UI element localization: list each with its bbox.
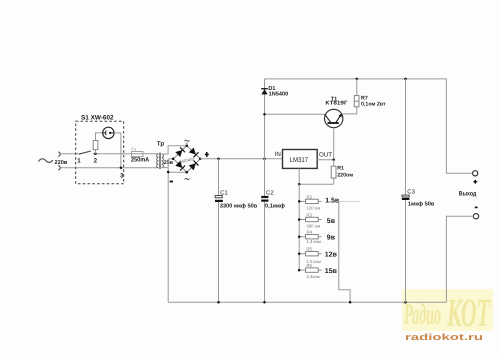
- wire AC top to switch: [61, 153, 79, 155]
- bridge diode bottom-left: [175, 161, 185, 171]
- transistor T1 KT819G: [325, 109, 343, 127]
- svg-text:C2: C2: [266, 189, 274, 196]
- wire plus output: [446, 79, 472, 173]
- resistor R7: [354, 79, 359, 107]
- resistor R2: [299, 199, 322, 203]
- label C1: [220, 190, 228, 197]
- node bridge right vertex: [199, 158, 202, 161]
- node R2: [298, 200, 301, 203]
- wire lamp to bottom: [114, 133, 121, 168]
- resistor R1: [331, 160, 336, 184]
- label 220ом: [337, 172, 353, 178]
- label Выход: [459, 191, 477, 198]
- node C3 top: [404, 78, 407, 81]
- bridge diode bottom-right: [189, 161, 199, 171]
- label Т1: [331, 97, 337, 103]
- node rail C3: [404, 301, 407, 304]
- label 1.4 ком: [307, 239, 321, 244]
- label C2: [266, 189, 274, 196]
- label 3300 мкф 50в: [220, 203, 258, 210]
- resistor R5: [299, 252, 322, 256]
- terminal bottom (plug pin): [58, 166, 60, 171]
- svg-text:Радио: Радио: [404, 298, 441, 331]
- node rail selector: [349, 301, 352, 304]
- node D1 tap: [263, 158, 266, 161]
- resistor R4: [299, 235, 322, 239]
- svg-text:1: 1: [77, 158, 81, 165]
- svg-text:5в: 5в: [327, 218, 336, 225]
- label Тр: [157, 141, 165, 148]
- node ADJ: [298, 183, 301, 186]
- svg-text:12в: 12в: [325, 252, 338, 259]
- wire AC bottom to transformer: [61, 167, 159, 169]
- pin 1 label: [77, 158, 81, 165]
- svg-text:2: 2: [94, 158, 98, 165]
- svg-text:R4: R4: [307, 230, 313, 235]
- label R4: [307, 230, 313, 235]
- wire secondary bottom to minus rail: [162, 167, 169, 169]
- node R6: [298, 269, 301, 272]
- label R5: [307, 247, 313, 252]
- resistor R3: [299, 217, 322, 221]
- svg-text:9в: 9в: [327, 235, 336, 242]
- label 680 ом: [307, 224, 321, 229]
- watermark РадиоКОТ: [402, 289, 493, 335]
- svg-text:R1: R1: [337, 166, 344, 172]
- svg-text:1.4 ком: 1.4 ком: [307, 239, 321, 244]
- svg-text:C1: C1: [220, 190, 228, 197]
- svg-text:220ом: 220ом: [337, 172, 353, 178]
- label 120 ом: [307, 206, 321, 211]
- svg-text:R6: R6: [307, 263, 313, 268]
- node bridge left vertex: [172, 158, 175, 161]
- label 15в: [325, 268, 338, 275]
- node R3: [298, 218, 301, 221]
- svg-text:R3: R3: [307, 213, 313, 218]
- svg-text:Тр: Тр: [157, 141, 165, 148]
- label КТ819Г: [325, 101, 348, 107]
- wire selector to rail: [339, 201, 350, 302]
- svg-text:C3: C3: [407, 189, 415, 196]
- svg-text:КОТ: КОТ: [446, 290, 490, 335]
- wire bridge plus to LM317 IN: [200, 158, 282, 160]
- label minus (bridge): [170, 181, 173, 183]
- lamp HL1 (neon indicator): [103, 127, 114, 138]
- wire secondary top to bridge top: [162, 146, 187, 154]
- wire T1 base down to OUT node: [333, 128, 335, 160]
- node C1 tap: [217, 158, 220, 161]
- wire ladder rail: [298, 184, 300, 270]
- wire minus output: [446, 216, 473, 302]
- label minus output: [475, 207, 478, 209]
- svg-text:25в: 25в: [164, 160, 174, 166]
- label 0,1ом 2вт: [361, 102, 386, 108]
- node bridge minus junction: [167, 171, 170, 174]
- label IN: [275, 151, 281, 158]
- node lamp-return junction: [120, 167, 123, 170]
- diode D1 1N5400: [261, 88, 268, 94]
- capacitor C3: [402, 79, 410, 302]
- label 2.4ком: [307, 274, 320, 279]
- transformer core: [160, 153, 161, 169]
- node bridge bottom vertex: [186, 171, 189, 174]
- node OUT: [332, 159, 335, 162]
- wire pin2 to fuse: [93, 153, 159, 155]
- node R4: [298, 235, 301, 238]
- svg-text:IN: IN: [275, 151, 281, 158]
- pin 3 label: [120, 173, 124, 180]
- label 1.5в: [325, 197, 340, 204]
- label LM317: [290, 157, 309, 164]
- svg-text:1мкф 50в: 1мкф 50в: [408, 201, 435, 208]
- node R5: [298, 252, 301, 255]
- label W04M: [180, 157, 195, 166]
- svg-text:2.4ком: 2.4ком: [307, 274, 320, 279]
- node bridge top vertex: [186, 144, 189, 147]
- label 0,1мкф: [265, 203, 285, 210]
- svg-text:S1 XW-602: S1 XW-602: [81, 114, 114, 121]
- diode D1 wire: [264, 79, 266, 159]
- svg-text:F1: F1: [132, 146, 137, 151]
- wire selector faint: [339, 200, 360, 202]
- transformer Tr primary winding: [157, 154, 159, 168]
- svg-text:220в: 220в: [55, 160, 68, 166]
- label 1N5400: [269, 92, 289, 98]
- resistor R6: [299, 268, 322, 272]
- bridge rectifier W04M outline: [173, 146, 200, 173]
- label F1: [132, 146, 137, 151]
- ac mark bottom tilde: [185, 178, 190, 179]
- wire base of T1: [265, 113, 325, 115]
- fuse F1: [131, 152, 143, 157]
- bridge diode top-right: [189, 147, 199, 157]
- svg-text:КТ819Г: КТ819Г: [325, 101, 348, 107]
- label plus (bridge): [205, 152, 209, 157]
- svg-text:3300 мкф 50в: 3300 мкф 50в: [220, 203, 258, 210]
- label 12в: [325, 252, 338, 259]
- label R7: [361, 96, 368, 102]
- wire OUT: [317, 159, 334, 161]
- regulator U1 LM317: [283, 150, 318, 169]
- label OUT: [319, 151, 332, 158]
- wire resistor top to lamp: [96, 133, 103, 141]
- svg-text:R2: R2: [307, 194, 313, 199]
- wire to bridge left vertex: [168, 158, 173, 160]
- capacitor C1 electrolytic: [215, 159, 223, 302]
- label 220в: [55, 160, 68, 166]
- wire top rail: [265, 78, 447, 80]
- label 1.5 ком: [307, 259, 321, 264]
- svg-text:OUT: OUT: [319, 151, 332, 158]
- wire resistor bottom to pin2: [95, 150, 97, 154]
- node rail C2: [263, 301, 266, 304]
- label plus output: [473, 180, 477, 184]
- svg-text:0,1ом 2вт: 0,1ом 2вт: [361, 102, 386, 108]
- svg-text:120 ом: 120 ом: [307, 206, 321, 211]
- label C3: [407, 189, 415, 196]
- svg-text:radiokot.ru: radiokot.ru: [405, 332, 483, 342]
- transformer secondary winding: [162, 154, 164, 168]
- terminal minus output: [473, 214, 478, 219]
- svg-text:R5: R5: [307, 247, 313, 252]
- wire bridge bottom vertex left: [168, 171, 187, 173]
- svg-text:0,1мкф: 0,1мкф: [265, 203, 285, 210]
- wire bottom rail: [168, 301, 446, 303]
- label R3: [307, 213, 313, 218]
- ac mark top tilde: [185, 140, 190, 145]
- terminal top (plug pin): [58, 152, 60, 157]
- node pin2: [94, 153, 97, 156]
- label R6: [307, 263, 313, 268]
- svg-text:1.5в: 1.5в: [325, 197, 340, 204]
- label R2: [307, 194, 313, 199]
- capacitor C2: [261, 159, 268, 302]
- node base tap: [263, 113, 266, 116]
- label 5в: [327, 218, 336, 225]
- label S1 XW-602: [81, 114, 114, 121]
- label 25в: [164, 160, 174, 166]
- bridge diode top-left: [175, 147, 185, 157]
- connector S1 XW-602 dashed box: [76, 121, 124, 183]
- label D1: [268, 86, 275, 92]
- switch S1 arm: [79, 151, 91, 154]
- wire ADJ: [299, 168, 334, 184]
- svg-text:1N5400: 1N5400: [269, 92, 289, 98]
- svg-text:LM317: LM317: [290, 157, 309, 164]
- svg-text:3: 3: [120, 173, 124, 180]
- wire T1 emitter to R7: [342, 107, 357, 114]
- pin 2 label: [94, 158, 98, 165]
- svg-text:15в: 15в: [325, 268, 338, 275]
- label R1: [337, 166, 344, 172]
- svg-text:680 ом: 680 ом: [307, 224, 321, 229]
- resistor lamp ballast: [93, 141, 98, 150]
- label 250mA: [131, 157, 150, 164]
- AC source tilde: [39, 159, 53, 163]
- node R7 top: [356, 78, 359, 81]
- terminal plus output: [473, 171, 478, 176]
- svg-text:Выход: Выход: [459, 191, 477, 198]
- svg-text:250mA: 250mA: [131, 157, 150, 164]
- wire bridge minus vertical: [167, 159, 169, 302]
- node rail C1: [217, 301, 220, 304]
- label 1мкф 50в: [408, 201, 435, 208]
- label 9в: [327, 235, 336, 242]
